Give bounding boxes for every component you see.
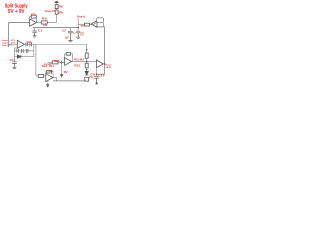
svg-text:C10: C10 [98, 74, 105, 77]
resistor R11 [85, 53, 88, 58]
wire [86, 58, 88, 63]
capacitor C2a [26, 43, 28, 46]
power dome [55, 1, 59, 3]
capacitor row A3 [26, 49, 28, 52]
capacitor row A1 [17, 49, 19, 52]
junction dot [78, 27, 79, 28]
wire [70, 28, 72, 31]
wire feedback U1 [30, 17, 37, 23]
wire [90, 24, 92, 26]
diode D1 bar [20, 55, 22, 58]
capacitor C7 [13, 62, 17, 67]
resistor R9 [55, 10, 58, 14]
resistor R8 [55, 5, 58, 9]
op-amp U4 [46, 74, 53, 82]
svg-text:R13: R13 [42, 66, 48, 68]
junction dot [104, 63, 106, 65]
junction dot [86, 69, 88, 71]
capacitor C6 [76, 31, 80, 37]
capacitor row A2 [22, 49, 24, 52]
resistor R2 [31, 15, 36, 18]
junction dot [96, 73, 98, 75]
svg-text:0V: 0V [64, 71, 69, 74]
wire [15, 48, 18, 61]
capacitor C1 [33, 31, 37, 35]
resistor on U4 feedback [47, 70, 52, 73]
wire feedback U3 [65, 54, 73, 62]
wire rail [33, 27, 78, 29]
diode D2 bar [85, 74, 88, 76]
wire [9, 44, 18, 46]
junction dot [86, 61, 88, 63]
resistor R10 [52, 61, 58, 64]
wire [72, 61, 97, 63]
ground arrow U4 [46, 84, 49, 88]
svg-text:Vout+9: Vout+9 [77, 15, 86, 19]
wire [9, 23, 30, 45]
diode D2 [85, 71, 88, 74]
wire [78, 24, 84, 26]
capacitor C2 [69, 31, 73, 40]
wire [15, 50, 34, 52]
resistor R3 [41, 21, 47, 24]
wire [44, 75, 46, 77]
wire [102, 23, 104, 27]
wire [33, 44, 35, 56]
ground [13, 67, 16, 68]
wire [47, 82, 49, 85]
wire [24, 43, 86, 45]
op-amp U5 [97, 60, 104, 67]
svg-text:1uF: 1uF [65, 38, 70, 40]
wire [86, 68, 88, 71]
node A [9, 44, 12, 46]
wire [36, 44, 38, 76]
capacitor C2b [30, 43, 32, 46]
node cross [60, 61, 63, 64]
svg-text:R11 4k7: R11 4k7 [74, 58, 85, 61]
op-amp U1 [30, 19, 37, 26]
node column [77, 18, 79, 30]
svg-text:pin3: pin3 [11, 43, 16, 45]
junction dot [86, 49, 88, 51]
wire [58, 61, 65, 63]
wire [53, 78, 57, 81]
diode D1 [17, 55, 20, 58]
wire [96, 68, 98, 76]
svg-text:TP1: TP1 [89, 77, 94, 80]
ground dot [96, 82, 98, 84]
svg-text:10k: 10k [43, 24, 48, 27]
terminal square [85, 77, 89, 81]
ground arrow net [60, 74, 63, 78]
resistor R13 [38, 74, 43, 77]
op-amp U3 [65, 58, 72, 66]
wire [103, 63, 104, 65]
wire feedback U4 [46, 72, 53, 78]
wire [34, 28, 36, 31]
wire [61, 62, 63, 74]
svg-text:R14: R14 [49, 65, 55, 68]
wire [97, 27, 105, 74]
svg-text:Vout+4.5: Vout+4.5 [45, 9, 56, 13]
op-amp U2 [91, 21, 97, 27]
wire [48, 61, 52, 63]
resistor R12 [85, 63, 88, 68]
resistor R5 [85, 23, 90, 26]
resistor on U3 feedback [66, 53, 70, 56]
svg-text:9V + 9V: 9V + 9V [8, 9, 25, 15]
wire [15, 56, 34, 58]
wire [56, 3, 58, 17]
wire [47, 17, 56, 22]
svg-text:R12: R12 [74, 64, 80, 67]
ground [77, 37, 80, 38]
wire [86, 44, 88, 53]
capacitor C8 [95, 76, 99, 82]
pot wiper diagonal [93, 18, 103, 26]
wire [36, 21, 41, 23]
wire stub U5 [96, 59, 98, 60]
ground [69, 41, 73, 42]
svg-text:level: level [2, 45, 8, 47]
svg-text:R10: R10 [54, 60, 60, 63]
wire stub [8, 45, 10, 47]
wire bottom rail [53, 80, 84, 82]
op-amp U1B [17, 40, 24, 48]
resistor R6 [97, 18, 104, 23]
ground [33, 36, 36, 37]
